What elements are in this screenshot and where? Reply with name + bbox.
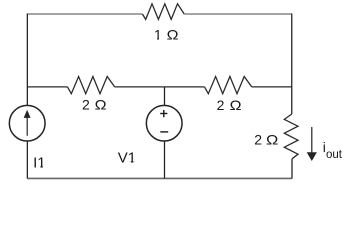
svg-text:V1: V1	[118, 150, 136, 167]
svg-text:2: 2	[217, 97, 225, 113]
svg-text:out: out	[326, 147, 343, 161]
svg-text:Ω: Ω	[230, 97, 242, 113]
svg-text:I1: I1	[33, 154, 46, 171]
svg-text:Ω: Ω	[266, 131, 278, 147]
svg-text:2: 2	[82, 97, 90, 113]
svg-text:2: 2	[254, 131, 262, 147]
svg-text:Ω: Ω	[95, 97, 107, 113]
svg-text:Ω: Ω	[167, 27, 179, 43]
